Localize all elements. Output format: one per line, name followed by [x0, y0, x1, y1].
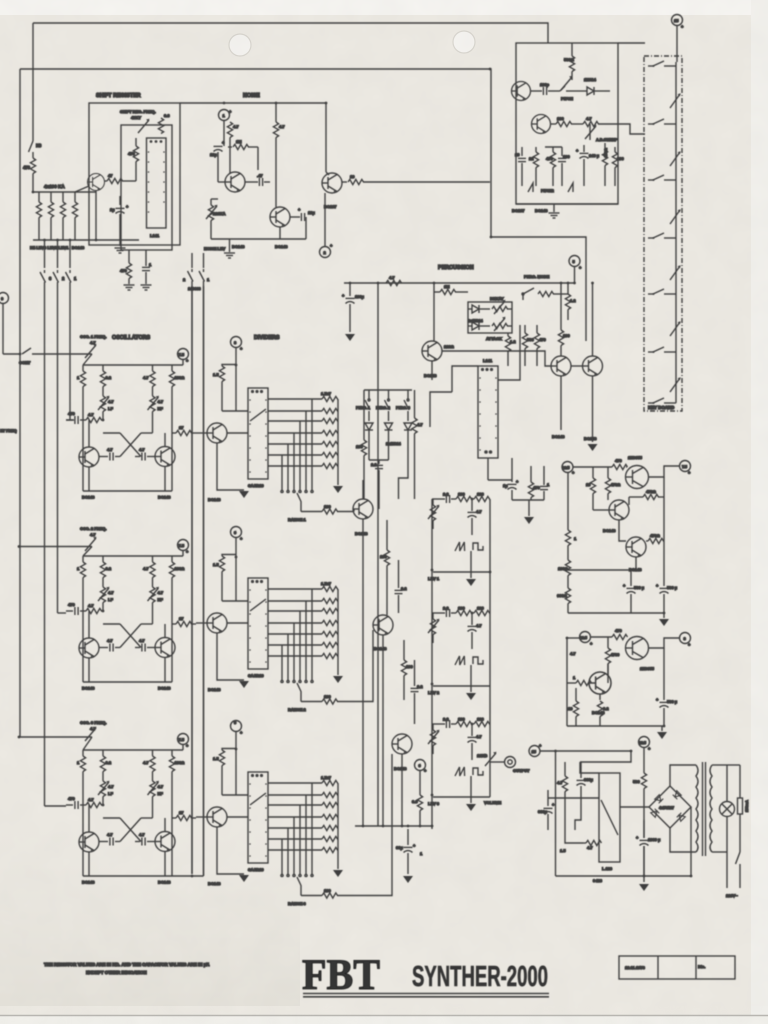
wire mixer left bus: [431, 499, 433, 826]
svg-text:BC107: BC107: [324, 204, 337, 209]
wire mix1 collector up: [362, 480, 364, 499]
wire long bus A: [191, 286, 193, 874]
svg-text:470: 470: [615, 458, 622, 463]
svg-text:100: 100: [356, 444, 363, 449]
wire sweep to keyboard: [618, 124, 645, 134]
resistor 470 reg1: [612, 458, 628, 470]
svg-text:OSC. 2 FREQ.: OSC. 2 FREQ.: [80, 526, 106, 531]
terminal 9 mixer: [415, 760, 428, 796]
wire reg2 bottom rail: [567, 725, 664, 727]
svg-text:100: 100: [617, 156, 624, 161]
ground perc out2: [588, 444, 598, 451]
svg-text:BC148: BC148: [535, 208, 548, 213]
svg-text:BC148: BC148: [374, 646, 387, 651]
svg-text:OSC. 1 FREQ.: OSC. 1 FREQ.: [80, 334, 106, 339]
resistor 470 under inner box: [120, 250, 132, 284]
resistor 4000 sweep: [602, 143, 608, 186]
perc key rail: [364, 389, 412, 391]
resistor 3.9 mixer: [412, 795, 423, 826]
svg-text:DEKAY: DEKAY: [490, 296, 504, 301]
capacitor 100 sweep: [558, 147, 570, 186]
svg-text:4.7: 4.7: [586, 116, 592, 121]
switch K3: [29, 141, 43, 158]
ground sweep: [549, 204, 560, 218]
sweep box: [516, 43, 618, 204]
svg-text:100: 100: [563, 154, 570, 159]
wire L141 frame left: [452, 366, 478, 392]
svg-text:100: 100: [406, 664, 413, 669]
svg-text:3.3: 3.3: [164, 113, 170, 118]
wire bank bottom bus: [33, 239, 139, 241]
wire L141 cap bus: [488, 479, 512, 481]
wire reg2 left bus: [566, 638, 568, 726]
svg-text:12µ: 12µ: [210, 152, 217, 157]
resistor 470 reg1 d: [646, 533, 664, 544]
switch noise lev out 2: [199, 253, 210, 876]
wire reg2 q emitter: [599, 694, 601, 700]
svg-text:PITCH2: PITCH2: [541, 189, 554, 193]
resistor 470 reg2: [612, 628, 628, 640]
resistor 3.2 reg2: [597, 701, 609, 726]
svg-text:330µ: 330µ: [584, 777, 594, 782]
terminal 22.5 reg1: [562, 462, 575, 476]
transistor BC148 reg1 b: [626, 537, 646, 557]
pot AB sweep: [585, 124, 618, 142]
ground psu: [639, 846, 649, 891]
svg-text:15: 15: [674, 18, 679, 23]
capacitor 100p: [531, 82, 560, 95]
wire mix1 emitter down: [362, 519, 364, 826]
wire osc2 cont line: [20, 546, 92, 548]
punch hole right: [453, 31, 475, 53]
wire left bus K: [19, 69, 21, 737]
keyboard wiper mark 1: [670, 93, 681, 108]
resistor 600 chain: [557, 576, 571, 614]
diode perc 1: [365, 423, 373, 460]
wire L141 right frame: [498, 325, 520, 380]
switch LEV2: [53, 240, 65, 613]
svg-text:BC107: BC107: [512, 208, 525, 213]
keyboard key switch 5: [648, 289, 676, 295]
terminal 8 reg2: [680, 633, 692, 648]
svg-text:470: 470: [539, 337, 546, 342]
keyboard wiper mark 5: [670, 321, 681, 336]
svg-text:2.2: 2.2: [371, 462, 377, 467]
wire noise q1 collector: [229, 150, 231, 174]
svg-text:PERC. MODE: PERC. MODE: [524, 274, 550, 279]
terminal 7.5 reg1: [680, 461, 692, 476]
resistor 4.7 psu b: [583, 840, 602, 850]
svg-text:500 µ: 500 µ: [667, 699, 678, 704]
pot 220KA noise lev: [206, 199, 226, 239]
capacitor 500u reg1 b: [656, 477, 678, 613]
svg-text:100: 100: [563, 333, 570, 338]
svg-text:BC148: BC148: [552, 434, 565, 439]
wire bc107 collector: [326, 172, 329, 175]
wire bridge bottom to transformer: [670, 828, 696, 852]
oscillator 1 block: [66, 349, 196, 500]
svg-text:LEV 3: LEV 3: [428, 801, 440, 806]
svg-text:100Ω: 100Ω: [558, 566, 569, 571]
svg-text:FBT: FBT: [302, 950, 380, 999]
svg-text:4.7: 4.7: [90, 532, 96, 537]
wire range2 out: [354, 630, 373, 702]
svg-text:22.5: 22.5: [639, 741, 646, 745]
wire noise q2 emitter: [279, 227, 281, 239]
transistor BC107 noise out: [322, 173, 342, 193]
resistor 1 reg2: [567, 675, 592, 686]
resistor 22 sweep: [529, 147, 539, 186]
capacitor 300u psu: [538, 790, 555, 830]
svg-text:L141: L141: [483, 358, 493, 363]
shift register inner box: [121, 125, 172, 250]
pot osc3 freq: [83, 727, 97, 750]
pot osc2 freq: [83, 537, 97, 556]
wire shift base: [75, 186, 89, 192]
switch PERC 1: [356, 390, 370, 421]
wire perc out2 emitter: [592, 376, 594, 442]
svg-text:470Ω: 470Ω: [650, 533, 661, 538]
transistor BC148 perc out 2: [583, 356, 603, 376]
keyboard wiper mark 3: [670, 209, 681, 224]
keyboard wiper mark 6: [670, 377, 681, 392]
svg-text:1.5: 1.5: [560, 848, 566, 853]
svg-text:4.7: 4.7: [587, 845, 593, 850]
svg-text:2.2: 2.2: [417, 684, 423, 689]
svg-text:4.7: 4.7: [233, 124, 239, 129]
resistor 10 reg2: [568, 688, 579, 726]
transistor BC148 reg1 a: [609, 500, 629, 520]
svg-text:1.2: 1.2: [570, 298, 576, 303]
svg-text:100: 100: [380, 554, 387, 559]
diode 1N914 env a: [468, 305, 490, 313]
wire psu top rail: [540, 750, 631, 752]
switch LEV1: [66, 240, 78, 420]
capacitor 100u perc: [342, 283, 365, 332]
keyboard key switch 6: [648, 347, 676, 353]
wire perc q1 collector line: [442, 351, 551, 366]
svg-text:PERCUSSION: PERCUSSION: [438, 265, 474, 271]
note resistor values: [44, 962, 210, 975]
IC L123 regulator: [599, 773, 620, 871]
resistor 470 L141: [528, 466, 540, 500]
resistor 4.7 psu: [557, 762, 568, 806]
svg-text:220KA: 220KA: [213, 211, 226, 216]
svg-text:470: 470: [546, 156, 553, 161]
resistor 100 mix3: [401, 640, 413, 700]
capacitor 2.2 mix2: [395, 560, 408, 613]
resistor 470 sweep: [545, 147, 562, 186]
transistor BC107 sweep: [512, 82, 531, 101]
resistor 470 env: [534, 325, 546, 366]
svg-text:47: 47: [108, 173, 113, 178]
switch PERC 2: [376, 390, 390, 421]
pot dekay 1M: [492, 300, 512, 314]
divider 1 block: [196, 337, 354, 515]
svg-text:600Ω: 600Ω: [557, 593, 568, 598]
wire noise top rail: [180, 103, 326, 172]
svg-text:THE RESISTOR VALUES ARE IN KΩ: THE RESISTOR VALUES ARE IN KΩ. AND THE C…: [44, 962, 210, 967]
lamp psu: [712, 765, 735, 852]
svg-text:1000 µ: 1000 µ: [648, 837, 661, 842]
svg-text:400Ω: 400Ω: [603, 147, 608, 158]
resistor bank R d: [72, 192, 77, 240]
svg-text:470: 470: [128, 151, 135, 156]
svg-text:DIVIDERS: DIVIDERS: [254, 335, 280, 341]
ground L141 caps: [524, 500, 534, 524]
svg-text:4.7: 4.7: [557, 780, 563, 785]
capacitor 1 under inner box: [142, 250, 152, 284]
wire bridge right down: [690, 807, 692, 876]
svg-text:240 µ: 240 µ: [589, 153, 600, 158]
resistor 560 psu: [633, 773, 647, 838]
svg-text:NOISE: NOISE: [243, 93, 260, 99]
label OSC 3 FREQ: [80, 720, 106, 731]
transformer secondary coil: [710, 765, 712, 852]
wire mains left: [726, 852, 728, 888]
terminal 22.5 psu: [639, 737, 652, 774]
svg-text:12 11 1973: 12 11 1973: [625, 965, 646, 970]
pot volume 12KB: [477, 752, 504, 766]
resistor 500 sweep collector: [564, 43, 575, 80]
wire perc out1 base link: [571, 365, 583, 367]
wire reg1 bottom rail: [568, 612, 664, 614]
svg-text:470Ω: 470Ω: [611, 482, 622, 487]
pot PITCH: [560, 76, 580, 101]
divider 3 block: [196, 721, 354, 899]
capacitor 2.2 perc sum: [369, 460, 389, 509]
wire L141 bottom feed: [487, 458, 489, 480]
mixer channel 3: [428, 717, 490, 812]
keyboard key switch 3: [648, 175, 676, 181]
node bank top bus: [33, 191, 96, 193]
wire mix3 emitter: [401, 754, 403, 826]
resistor bank R c: [60, 192, 65, 240]
capacitor 500u reg1 a: [623, 570, 645, 613]
svg-text:3.2: 3.2: [603, 706, 609, 711]
resistor 500 env: [522, 325, 534, 366]
keyboard common line: [675, 62, 677, 403]
wire mixer right bus link a: [489, 572, 491, 613]
ground shift cap: [115, 248, 126, 253]
wire noise q1 base: [217, 172, 219, 182]
capacitor 500u reg2: [656, 648, 678, 726]
resistor 1M perc: [434, 283, 468, 295]
svg-text:BC148: BC148: [232, 244, 245, 249]
svg-text:22: 22: [529, 156, 534, 161]
wire top rail 1: [33, 23, 548, 43]
svg-text:SHIFT REGISTER: SHIFT REGISTER: [96, 93, 141, 99]
keyboard wiper mark 4: [670, 265, 681, 280]
wire range3 out: [354, 754, 392, 896]
wire chain mid tap: [568, 569, 636, 571]
wire long bus B: [203, 286, 205, 876]
svg-text:500 µ: 500 µ: [634, 585, 645, 590]
paper bottom scan line: [0, 1015, 768, 1017]
wire L123 frame: [580, 751, 631, 762]
terminal OUTPUT: [505, 757, 531, 774]
capacitor 2u electrolytic: [110, 196, 129, 246]
svg-text:L141: L141: [150, 233, 160, 238]
ground reg2: [657, 726, 667, 739]
svg-text:4.7: 4.7: [389, 275, 395, 280]
wire noise lev left: [211, 198, 218, 200]
transistor BC148 noise 1: [225, 172, 245, 192]
wire reg1 left chain: [567, 473, 569, 531]
keyboard key switch 1: [648, 61, 676, 67]
transistor BC148 noise 2: [270, 207, 290, 227]
wire reg1 q2-q3: [619, 520, 626, 541]
paper top white margin: [0, 0, 768, 15]
svg-text:OSCILLATORS: OSCILLATORS: [112, 335, 151, 341]
diode perc 3: [404, 423, 412, 460]
terminal 1: [219, 109, 233, 146]
pot attack 1M: [492, 317, 512, 331]
ground under cap: [141, 285, 152, 290]
svg-text:10: 10: [350, 174, 355, 179]
svg-text:2N3055: 2N3055: [628, 455, 643, 460]
resistor 470 (shift): [128, 138, 139, 181]
svg-text:A.B.SWEEP: A.B.SWEEP: [596, 138, 618, 142]
wire reg1 top rail: [573, 466, 612, 468]
wire reg2 q collector: [607, 664, 609, 684]
ground noise: [224, 239, 235, 258]
svg-text:470Ω: 470Ω: [646, 489, 657, 494]
svg-text:EXCEPT OTHER INDICATION: EXCEPT OTHER INDICATION: [86, 970, 147, 975]
capacitor 10 sweep: [515, 147, 526, 186]
wire L141 frame outer: [430, 392, 452, 427]
svg-text:180: 180: [557, 116, 564, 121]
svg-text:4xBY127: 4xBY127: [659, 806, 674, 810]
wire top rail 1 left drop: [32, 23, 34, 141]
resistor 4.7 sweep: [571, 116, 618, 127]
wire reg1 q3 emitter: [635, 557, 637, 570]
wire mixer right bus link b: [489, 686, 491, 724]
wire perc out2 collector: [592, 283, 594, 356]
svg-text:220V~: 220V~: [726, 893, 738, 898]
capacitor 47 interstage: [245, 173, 270, 186]
resistor 1.2 perc: [565, 283, 576, 320]
svg-text:7.5: 7.5: [682, 465, 687, 469]
shift register outer box: [89, 103, 180, 245]
svg-text:SYNTHER-2000: SYNTHER-2000: [412, 962, 548, 993]
svg-text:2x1N914: 2x1N914: [468, 319, 483, 323]
svg-text:12µ: 12µ: [308, 210, 315, 215]
wire CONT line: [3, 353, 20, 355]
wire psu left bus: [555, 751, 557, 876]
resistor 470 reg1 b: [605, 467, 621, 500]
ground perc cap: [345, 334, 355, 341]
waveform saw left: [528, 183, 533, 192]
wire osc3 feed elbow: [45, 805, 67, 807]
resistor 180 sweep: [551, 116, 572, 127]
wire sweep bottom rail: [516, 203, 618, 205]
wire psu lower frame b: [575, 806, 581, 830]
svg-text:OUTPUT: OUTPUT: [513, 768, 530, 773]
diode 1N914 sweep: [580, 77, 610, 95]
svg-text:3.9: 3.9: [412, 799, 418, 804]
keyboard key switch 2: [648, 119, 676, 125]
svg-text:470: 470: [533, 485, 540, 490]
resistor 3.3: [158, 113, 170, 134]
svg-text:2N3055: 2N3055: [640, 666, 655, 671]
wire bridge top to transformer: [670, 765, 696, 786]
resistor 100 sweep right: [612, 147, 624, 186]
paper bottom band: [0, 1016, 768, 1024]
svg-text:470: 470: [23, 165, 31, 170]
wire bridge to L123: [620, 806, 649, 808]
transformer core: [703, 762, 706, 856]
resistor 470 reg1 c: [629, 489, 664, 505]
svg-text:KEY BOARD: KEY BOARD: [648, 405, 674, 410]
wire long bus C: [377, 283, 379, 826]
svg-text:470: 470: [120, 268, 127, 273]
wire top rail 2: [20, 69, 586, 341]
wire noise bottom rail: [211, 238, 306, 240]
transistor BC148 sweep 2: [532, 115, 551, 134]
svg-text:RANGE 1: RANGE 1: [288, 517, 307, 522]
resistor 4.7 perc rail: [386, 275, 402, 286]
wire osc2 feed elbow: [58, 612, 67, 614]
transistor BC148 mix 1: [353, 499, 373, 519]
resistor 100 perc out1 collector: [558, 283, 570, 356]
svg-text:47KY: 47KY: [131, 115, 141, 120]
svg-text:10: 10: [515, 152, 520, 157]
resistor bank R a: [36, 192, 41, 240]
revision table: [619, 956, 735, 979]
transformer primary coil: [696, 765, 698, 852]
switch PERC 3: [396, 390, 410, 421]
wire reg2 top rail: [567, 637, 580, 639]
svg-text:10: 10: [586, 482, 591, 487]
label OSC 2 FREQ: [80, 526, 106, 537]
capacitor 330u psu: [577, 762, 594, 806]
wire L123 frame left: [580, 762, 599, 773]
wire perc diode3 down: [399, 460, 409, 499]
terminal 22.5 reg2: [580, 632, 594, 647]
oscillator 2 block: [66, 540, 196, 691]
resistor 4.7 perc right: [412, 390, 423, 499]
resistor 47 shift collector: [104, 173, 136, 184]
svg-text:Dis.: Dis.: [698, 964, 705, 969]
svg-text:4.7: 4.7: [417, 422, 423, 427]
svg-text:2.2: 2.2: [401, 586, 407, 591]
svg-text:4.7: 4.7: [279, 124, 285, 129]
wire perc q1 base: [433, 292, 435, 341]
resistor AAA perc mode: [538, 291, 568, 296]
wire cap bottom bus: [512, 499, 544, 501]
resistor 4.7 noise b: [273, 103, 285, 207]
wire reg2 out: [649, 638, 680, 648]
svg-text:22.5: 22.5: [580, 636, 587, 640]
pot shift freq: [138, 119, 150, 133]
svg-text:BC148: BC148: [394, 766, 407, 771]
wire mixer bottom rail: [355, 826, 432, 829]
svg-text:.47: .47: [257, 173, 263, 178]
svg-text:500Ω: 500Ω: [564, 57, 575, 62]
transistor 2N3055 reg2: [626, 637, 649, 660]
svg-text:470: 470: [615, 628, 622, 633]
wire psu bottom rail: [556, 875, 692, 877]
svg-text:NT FREQ: NT FREQ: [0, 429, 17, 433]
wire osc1 feed elbow: [66, 419, 74, 421]
ground mixer: [403, 876, 413, 883]
switch mains: [736, 852, 741, 888]
svg-text:BC148: BC148: [424, 373, 437, 378]
resistor bank R b: [48, 192, 53, 240]
svg-text:CONT: CONT: [19, 360, 31, 365]
ground reg1: [659, 613, 669, 626]
